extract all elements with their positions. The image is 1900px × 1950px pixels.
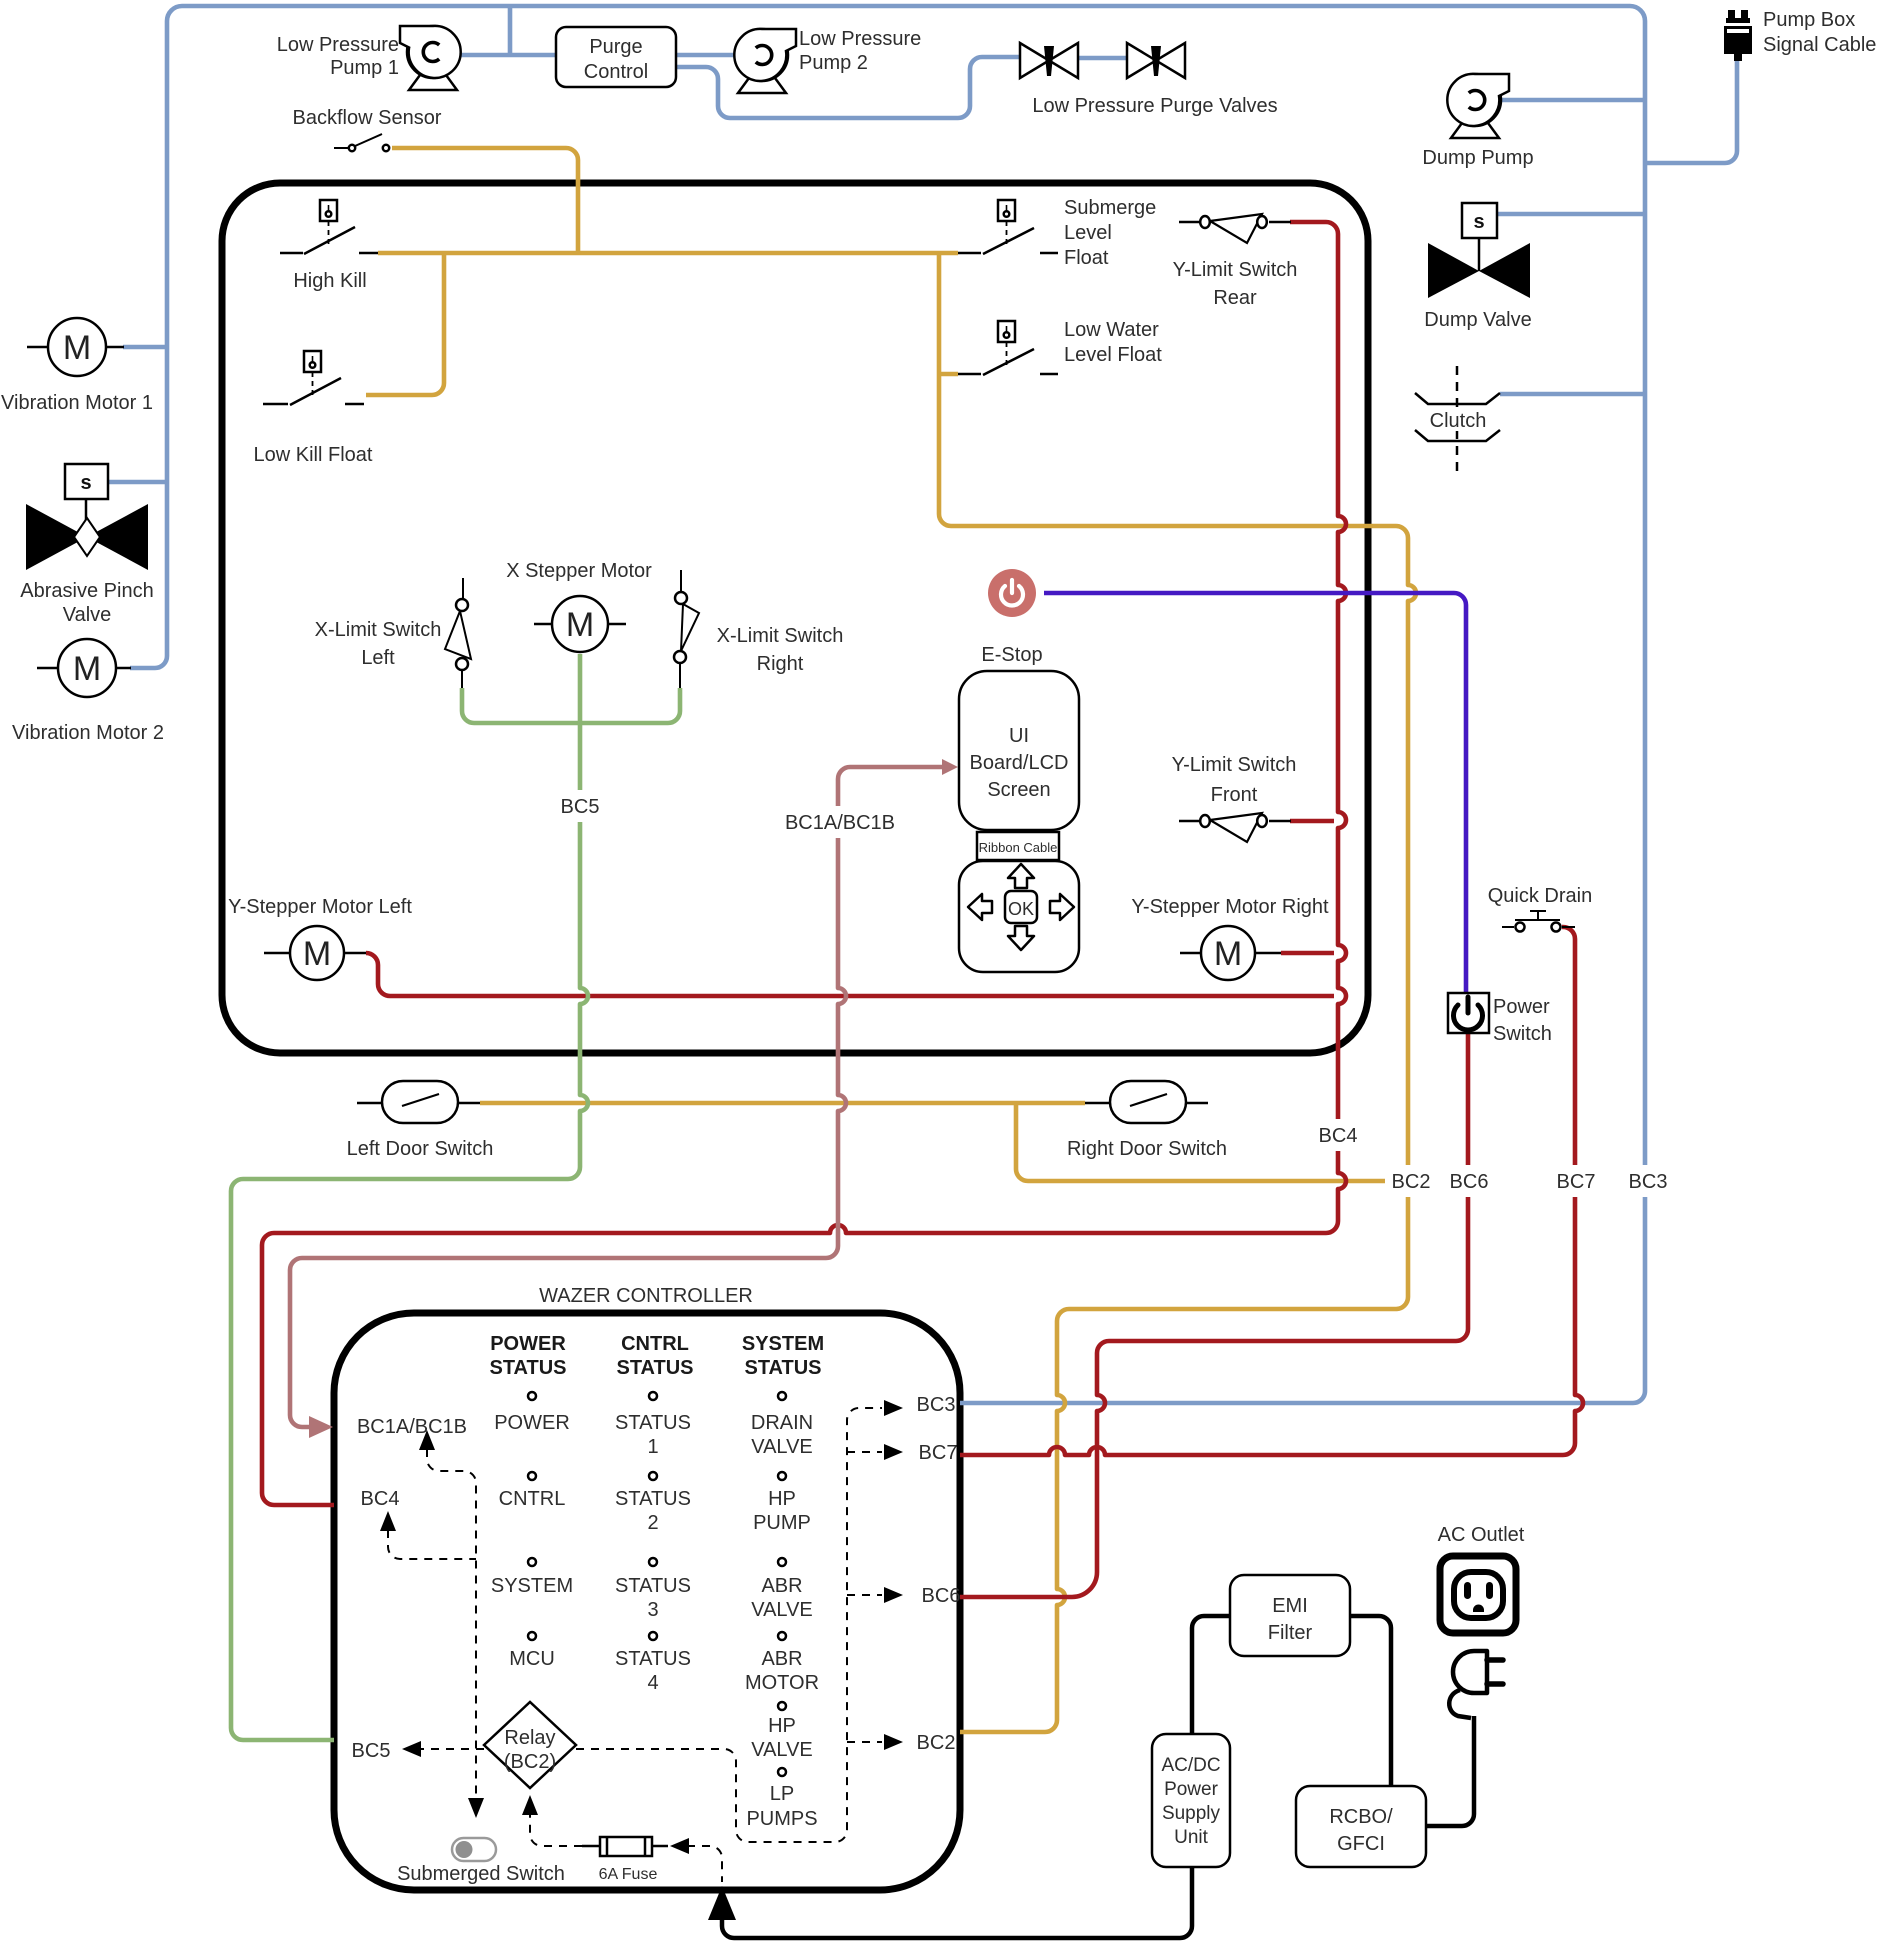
svg-text:Relay: Relay — [504, 1727, 555, 1749]
wire gold low water float stub — [939, 372, 958, 377]
svg-text:1: 1 — [647, 1436, 658, 1458]
wire gold high kill float bus — [378, 251, 958, 256]
wire salmon BC1A/BC1B ui board to controller — [290, 767, 944, 1427]
purge control module — [556, 27, 676, 87]
switch SW10 quick drain — [1502, 911, 1575, 932]
relay BC2 — [484, 1702, 576, 1788]
wire black RCBO to plug — [1426, 1716, 1474, 1826]
controller box WAZER CONTROLLER — [334, 1313, 960, 1890]
svg-text:HP: HP — [768, 1488, 796, 1510]
wire gold backflow sensor — [392, 148, 578, 253]
svg-text:Filter: Filter — [1268, 1622, 1313, 1644]
wire blue pump1 to purge control — [461, 6, 556, 55]
button E-Stop — [988, 569, 1036, 617]
svg-text:Abrasive Pinch: Abrasive Pinch — [20, 580, 153, 602]
svg-text:Dump Valve: Dump Valve — [1424, 309, 1531, 331]
svg-text:Level Float: Level Float — [1064, 344, 1162, 366]
wire blue pump box signal cable — [1645, 58, 1737, 163]
svg-text:Low Pressure: Low Pressure — [277, 34, 399, 56]
submerged switch toggle — [452, 1838, 496, 1861]
pump P3 dump pump — [1447, 74, 1509, 138]
wire black PSU to controller — [722, 1867, 1192, 1938]
svg-text:OK: OK — [1008, 899, 1034, 919]
wire red y-stepper right — [1281, 951, 1334, 956]
AC outlet — [1440, 1556, 1516, 1633]
svg-text:ABR: ABR — [761, 1648, 802, 1670]
wire gold float bus to BC2 controller input — [939, 253, 1416, 1732]
svg-text:BC7: BC7 — [1557, 1171, 1596, 1193]
svg-text:Vibration Motor 1: Vibration Motor 1 — [1, 392, 153, 414]
keypad with OK button — [959, 861, 1079, 972]
pump P1 low pressure pump 1 — [400, 26, 461, 90]
svg-text:Front: Front — [1211, 784, 1258, 806]
valve V1 low pressure purge valve 1 — [1020, 43, 1078, 78]
svg-text:DRAIN: DRAIN — [751, 1412, 813, 1434]
svg-text:BC2: BC2 — [1392, 1171, 1431, 1193]
wire black EMI filter to PSU — [1192, 1616, 1230, 1734]
svg-text:EMI: EMI — [1272, 1595, 1308, 1617]
svg-text:Right Door Switch: Right Door Switch — [1067, 1138, 1227, 1160]
label BC4 net — [1311, 1119, 1365, 1151]
svg-text:Low Pressure Purge Valves: Low Pressure Purge Valves — [1032, 95, 1277, 117]
motor M4 y-stepper motor left — [264, 926, 366, 980]
UI board U1 — [959, 671, 1079, 830]
switch SW12 left door switch — [357, 1081, 480, 1123]
valve V4 abrasive pinch valve — [26, 504, 148, 570]
label BC2 net — [1385, 1165, 1437, 1197]
svg-text:6A Fuse: 6A Fuse — [599, 1866, 658, 1883]
svg-text:Switch: Switch — [1493, 1023, 1552, 1045]
svg-text:AC/DC: AC/DC — [1161, 1755, 1220, 1776]
svg-text:BC2: BC2 — [917, 1732, 956, 1754]
wire red y-limit front — [1290, 819, 1334, 824]
svg-text:Quick Drain: Quick Drain — [1488, 885, 1592, 907]
svg-text:POWER: POWER — [494, 1412, 570, 1434]
limit switch SW6 y-limit rear — [1179, 214, 1291, 243]
svg-text:VALVE: VALVE — [751, 1599, 813, 1621]
svg-text:STATUS: STATUS — [744, 1357, 821, 1379]
svg-text:M: M — [1214, 935, 1242, 973]
connector J1 pump box signal cable — [1724, 10, 1752, 61]
svg-text:BC1A/BC1B: BC1A/BC1B — [785, 812, 895, 834]
svg-text:High Kill: High Kill — [293, 270, 366, 292]
plug — [1449, 1651, 1503, 1718]
wire blue purge control to pump2 — [676, 53, 736, 58]
label BC5 — [556, 790, 604, 822]
svg-text:M: M — [303, 935, 331, 973]
limit switch SW7 x-limit left — [445, 578, 471, 688]
wire salmon arrowhead into controller — [309, 1416, 333, 1438]
svg-text:Right: Right — [757, 653, 804, 675]
wire red quick drain to BC7 controller input — [960, 927, 1583, 1455]
svg-text:Clutch: Clutch — [1430, 410, 1487, 432]
ribbon cable — [977, 832, 1059, 860]
switch SW1 backflow sensor — [334, 134, 389, 151]
svg-text:Ribbon Cable: Ribbon Cable — [979, 840, 1058, 855]
svg-text:STATUS: STATUS — [615, 1488, 691, 1510]
svg-text:VALVE: VALVE — [751, 1436, 813, 1458]
svg-text:BC3: BC3 — [1629, 1171, 1668, 1193]
svg-text:Pump 1: Pump 1 — [330, 57, 399, 79]
svg-text:Y-Limit Switch: Y-Limit Switch — [1172, 754, 1297, 776]
svg-text:Submerge: Submerge — [1064, 197, 1156, 219]
wire blue between purge valves — [1078, 56, 1127, 61]
svg-text:Y-Limit Switch: Y-Limit Switch — [1173, 259, 1298, 281]
wire blue dump valve — [1497, 212, 1645, 217]
svg-text:Signal Cable: Signal Cable — [1763, 34, 1876, 56]
switch SW13 right door switch — [1085, 1081, 1208, 1123]
label BC7 net — [1550, 1165, 1602, 1197]
svg-text:X Stepper Motor: X Stepper Motor — [506, 560, 652, 582]
clutch K1 — [1415, 366, 1500, 478]
limit switch SW9 y-limit front — [1179, 813, 1291, 842]
valve V2 low pressure purge valve 2 — [1127, 43, 1185, 78]
dashed link BC2 arrow — [847, 1741, 882, 1743]
wire salmon arrowhead into ui board — [942, 759, 958, 775]
svg-text:WAZER CONTROLLER: WAZER CONTROLLER — [539, 1285, 753, 1307]
svg-text:Power: Power — [1164, 1779, 1219, 1800]
svg-text:Low Water: Low Water — [1064, 319, 1159, 341]
svg-text:SYSTEM: SYSTEM — [491, 1575, 573, 1597]
pump P2 low pressure pump 2 — [734, 29, 796, 93]
controller power status column — [489, 1333, 573, 1670]
svg-text:Vibration Motor 2: Vibration Motor 2 — [12, 722, 164, 744]
solenoid S1 dump valve — [1462, 203, 1497, 271]
svg-text:Low Kill Float: Low Kill Float — [254, 444, 373, 466]
dashed link relay to BC5 — [421, 1748, 484, 1750]
svg-text:BC4: BC4 — [1319, 1125, 1358, 1147]
svg-text:BC6: BC6 — [1450, 1171, 1489, 1193]
svg-text:CNTRL: CNTRL — [499, 1488, 566, 1510]
svg-text:Pump Box: Pump Box — [1763, 9, 1855, 31]
svg-text:STATUS: STATUS — [489, 1357, 566, 1379]
svg-text:s: s — [80, 472, 91, 494]
svg-text:STATUS: STATUS — [616, 1357, 693, 1379]
wire blue main pump-box bus — [130, 6, 1645, 1403]
svg-text:STATUS: STATUS — [615, 1412, 691, 1434]
fuse F1 6A — [582, 1837, 668, 1856]
svg-text:Valve: Valve — [63, 604, 112, 626]
motor M5 y-stepper motor right — [1180, 926, 1281, 980]
svg-text:LP: LP — [770, 1783, 794, 1805]
RCBO/GFCI — [1296, 1786, 1426, 1867]
switch SW3 low kill float — [263, 351, 364, 405]
switch SW5 low water level float — [958, 321, 1058, 375]
svg-text:Submerged Switch: Submerged Switch — [397, 1863, 565, 1885]
wire green x-limit switches link — [462, 688, 680, 723]
limit switch SW8 x-limit right — [674, 570, 699, 688]
svg-text:s: s — [1473, 211, 1484, 233]
svg-text:Purge: Purge — [589, 36, 642, 58]
svg-text:Float: Float — [1064, 247, 1109, 269]
svg-text:SYSTEM: SYSTEM — [742, 1333, 824, 1355]
svg-text:X-Limit Switch: X-Limit Switch — [717, 625, 844, 647]
svg-text:AC Outlet: AC Outlet — [1438, 1524, 1525, 1546]
svg-text:BC4: BC4 — [361, 1488, 400, 1510]
svg-text:Y-Stepper Motor Right: Y-Stepper Motor Right — [1131, 896, 1329, 918]
svg-text:BC3: BC3 — [917, 1394, 956, 1416]
svg-text:Left: Left — [361, 647, 395, 669]
wire gold low kill float branch — [366, 253, 444, 395]
dashed link BC7 arrow — [847, 1451, 882, 1453]
svg-text:Power: Power — [1493, 996, 1550, 1018]
svg-text:3: 3 — [647, 1599, 658, 1621]
svg-text:Left Door Switch: Left Door Switch — [347, 1138, 494, 1160]
svg-text:STATUS: STATUS — [615, 1648, 691, 1670]
svg-text:Level: Level — [1064, 222, 1112, 244]
wire red y-stepper left — [366, 953, 1334, 996]
wire blue vibration motor 1 — [123, 345, 167, 350]
svg-text:Backflow Sensor: Backflow Sensor — [293, 107, 442, 129]
svg-text:4: 4 — [647, 1672, 658, 1694]
dashed link BC6 arrow — [847, 1594, 882, 1596]
svg-text:PUMP: PUMP — [753, 1512, 811, 1534]
dashed link fuse to relay — [530, 1814, 582, 1846]
svg-text:BC6: BC6 — [922, 1585, 961, 1607]
wire blue clutch — [1500, 392, 1645, 397]
wire blue purge control to purge valves — [676, 57, 1020, 118]
svg-text:POWER: POWER — [490, 1333, 566, 1355]
svg-text:Screen: Screen — [987, 779, 1050, 801]
svg-text:Control: Control — [584, 61, 648, 83]
wire red y-limit rear to BC4 bus — [262, 222, 1346, 1505]
svg-text:MCU: MCU — [509, 1648, 555, 1670]
svg-text:ABR: ABR — [761, 1575, 802, 1597]
svg-text:Rear: Rear — [1213, 287, 1257, 309]
wire green BC5 x stepper to controller — [231, 654, 588, 1740]
wire purple e-stop to power switch — [1044, 593, 1466, 993]
wire blue abrasive pinch valve — [108, 480, 167, 485]
svg-text:BC5: BC5 — [352, 1740, 391, 1762]
power switch SW11 — [1448, 993, 1489, 1033]
wire black arrowhead into controller — [708, 1886, 736, 1920]
label BC1A/BC1B net — [772, 806, 906, 838]
dashed link relay to output bus and BC3 arrow — [576, 1408, 882, 1842]
svg-text:MOTOR: MOTOR — [745, 1672, 819, 1694]
svg-text:STATUS: STATUS — [615, 1575, 691, 1597]
svg-text:Dump Pump: Dump Pump — [1422, 147, 1533, 169]
dashed link power input to fuse — [687, 1846, 722, 1882]
label BC3 net — [1622, 1165, 1674, 1197]
svg-text:X-Limit Switch: X-Limit Switch — [315, 619, 442, 641]
svg-text:BC1A/BC1B: BC1A/BC1B — [357, 1416, 467, 1438]
controller cntrl status column — [615, 1333, 693, 1694]
EMI filter — [1230, 1575, 1350, 1656]
wire black EMI filter to RCBO — [1350, 1616, 1391, 1786]
wire red power switch to BC6 controller input — [960, 1033, 1468, 1597]
switch SW4 submerge level float — [958, 200, 1058, 254]
svg-text:E-Stop: E-Stop — [981, 644, 1042, 666]
motor M2 vibration motor 2 — [37, 639, 131, 697]
motor M3 x stepper motor — [534, 596, 626, 652]
svg-text:Board/LCD: Board/LCD — [970, 752, 1069, 774]
wire gold door switches to BC4/BC2 junction — [1016, 1103, 1408, 1181]
svg-text:HP: HP — [768, 1715, 796, 1737]
dashed link BC1A/BC1B to submerged switch — [427, 1449, 476, 1796]
svg-text:Y-Stepper Motor Left: Y-Stepper Motor Left — [228, 896, 412, 918]
dashed link BC4 — [388, 1530, 476, 1559]
svg-text:M: M — [63, 329, 91, 367]
switch SW2 high kill float — [280, 200, 378, 254]
svg-text:BC7: BC7 — [919, 1442, 958, 1464]
svg-text:(BC2): (BC2) — [504, 1751, 556, 1773]
svg-text:M: M — [566, 606, 594, 644]
svg-text:2: 2 — [647, 1512, 658, 1534]
label Clutch — [1424, 408, 1490, 432]
AC/DC power supply unit — [1152, 1734, 1230, 1867]
svg-text:GFCI: GFCI — [1337, 1833, 1385, 1855]
label BC6 net — [1443, 1165, 1495, 1197]
controller system status column — [742, 1333, 824, 1830]
svg-text:CNTRL: CNTRL — [621, 1333, 689, 1355]
svg-text:M: M — [73, 650, 101, 688]
svg-text:Low Pressure: Low Pressure — [799, 28, 921, 50]
svg-text:VALVE: VALVE — [751, 1739, 813, 1761]
svg-text:Pump 2: Pump 2 — [799, 52, 868, 74]
svg-text:RCBO/: RCBO/ — [1329, 1806, 1393, 1828]
svg-text:PUMPS: PUMPS — [746, 1808, 817, 1830]
wire blue dump pump — [1502, 98, 1645, 103]
svg-text:UI: UI — [1009, 725, 1029, 747]
svg-text:BC5: BC5 — [561, 796, 600, 818]
wire gold door switch chain — [480, 1101, 1085, 1106]
enclosure machine frame — [222, 183, 1368, 1053]
motor M1 vibration motor 1 — [27, 318, 124, 376]
svg-text:Supply: Supply — [1162, 1803, 1221, 1824]
svg-text:Unit: Unit — [1174, 1827, 1209, 1848]
solenoid S2 abrasive pinch valve — [65, 464, 108, 537]
valve V3 dump valve — [1428, 243, 1479, 298]
